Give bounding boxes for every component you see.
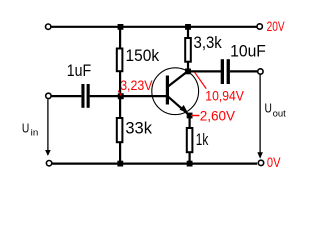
wire emitter node to R4 [189, 116, 191, 129]
transistor Q1 base bar [166, 76, 169, 105]
wire Uin arrow shaft [47, 99, 49, 155]
terminal top right 20V [257, 24, 262, 29]
terminal output bottom 0V [258, 160, 263, 165]
wire Uout arrow shaft [259, 75, 261, 158]
svg-text:2,60V: 2,60V [200, 109, 235, 124]
wire top 20V rail [51, 26, 256, 28]
node collector junction [185, 69, 191, 75]
svg-text:1uF: 1uF [67, 61, 91, 80]
wire bottom 0V rail [52, 163, 257, 165]
wire R1 to R2 [119, 71, 121, 118]
node top collector junction [185, 24, 191, 30]
wire collector node to C2 [188, 70, 221, 72]
terminal input [46, 93, 51, 98]
resistor R4 1k [187, 128, 193, 152]
terminal bottom left [46, 161, 51, 166]
wire rail to R3 [187, 27, 189, 38]
resistor R2 33k [117, 118, 123, 142]
svg-text:20V: 20V [267, 19, 285, 34]
wire R3 to collector node [187, 62, 189, 72]
svg-text:out: out [273, 108, 287, 119]
svg-text:U: U [265, 101, 272, 116]
capacitor C2 10uF plate left [221, 59, 224, 84]
Uout arrow head [257, 152, 263, 158]
resistor R1 150k [117, 49, 123, 72]
svg-text:150k: 150k [126, 46, 160, 65]
svg-text:33k: 33k [125, 118, 152, 137]
svg-text:0V: 0V [267, 155, 281, 170]
transistor Q1 emitter lead [168, 97, 190, 116]
svg-text:U: U [22, 120, 29, 135]
node bottom emitter junction [187, 161, 193, 167]
svg-text:10uF: 10uF [230, 42, 266, 61]
node top divider junction [118, 24, 124, 30]
transistor Q1 circle [152, 68, 199, 115]
capacitor C1 1uF plate right [87, 84, 90, 108]
wire input to C1 [52, 95, 82, 97]
leader base voltage [118, 91, 121, 96]
terminal top left [46, 24, 51, 29]
capacitor C2 10uF plate right [227, 59, 230, 84]
leader collector voltage [195, 72, 207, 88]
svg-text:3,3k: 3,3k [194, 33, 223, 52]
transistor Q1 emitter arrow [180, 105, 189, 113]
node emitter junction [187, 113, 193, 119]
wire R4 to rail [189, 152, 191, 163]
wire C2 to output terminal [230, 70, 258, 72]
terminal output top [258, 69, 263, 74]
svg-text:1k: 1k [196, 130, 209, 149]
node bottom divider junction [117, 161, 123, 167]
svg-text:10,94V: 10,94V [205, 88, 244, 103]
node base junction [118, 93, 124, 99]
leader emitter voltage minus [191, 115, 200, 117]
transistor Q1 collector lead [168, 71, 189, 87]
capacitor C1 1uF plate left [81, 84, 84, 108]
svg-text:in: in [31, 128, 39, 139]
Uin arrow head [45, 150, 51, 156]
wire R2 to rail [119, 142, 121, 163]
wire C1 to base [90, 95, 167, 97]
resistor R3 3.3k [185, 38, 191, 62]
wire rail to R1 [119, 27, 121, 49]
svg-text:3,23V: 3,23V [120, 78, 152, 93]
